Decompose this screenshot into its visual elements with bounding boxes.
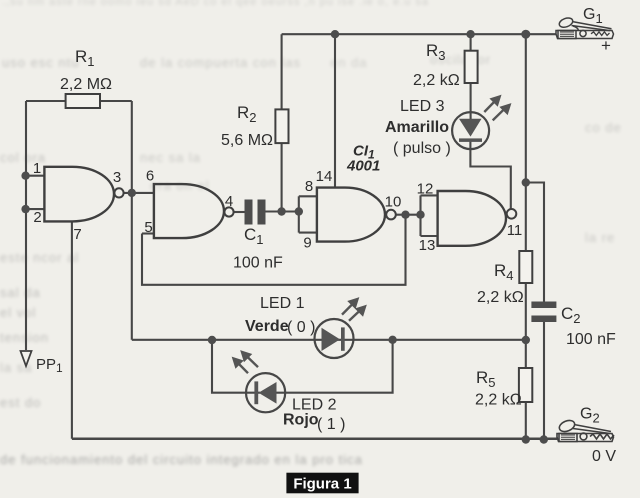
svg-text:R3: R3	[426, 41, 446, 63]
wire R3 top lead	[470, 34, 472, 51]
svg-text:10: 10	[385, 194, 402, 211]
wire LED2 left bracket	[212, 340, 260, 393]
wire pin 7 down	[71, 221, 73, 438]
svg-text:R1: R1	[75, 47, 95, 69]
svg-text:9: 9	[303, 235, 311, 252]
svg-text:14: 14	[316, 168, 333, 185]
wire R2 top lead	[281, 34, 283, 109]
wire R2 bottom lead	[281, 143, 283, 211]
wire LED3 cathode to pin 11	[470, 141, 510, 209]
svg-text:2,2 kΩ: 2,2 kΩ	[477, 289, 524, 306]
svg-text:1: 1	[33, 160, 41, 177]
wire left rail	[25, 101, 27, 350]
svg-text:PP1: PP1	[36, 356, 63, 375]
svg-text:5: 5	[144, 219, 152, 236]
wire gate1 input 2	[26, 208, 44, 210]
LED 3 symbol	[452, 97, 510, 150]
svg-text:12: 12	[417, 181, 434, 198]
wire pin 5 stub	[142, 232, 154, 234]
svg-text:G1: G1	[583, 6, 603, 26]
wire pin 9 stub	[299, 232, 317, 234]
wire C2 branch	[526, 183, 544, 302]
LED 1 symbol	[315, 299, 366, 358]
svg-text:6: 6	[146, 168, 154, 185]
wire gate1 input 1	[26, 175, 44, 177]
NOR gate CI1d	[438, 191, 517, 246]
alligator clip G2	[557, 418, 614, 441]
wire ground rail	[72, 438, 557, 441]
svg-text:C2: C2	[561, 304, 581, 326]
capacitor C2	[531, 302, 556, 323]
svg-text:LED 1: LED 1	[260, 295, 305, 312]
NOR gate CI1c	[317, 188, 396, 242]
svg-text:2,2 MΩ: 2,2 MΩ	[60, 76, 112, 93]
wire pin 12 stub	[421, 194, 438, 196]
wire right rail lower	[525, 283, 527, 368]
svg-text:2,2 kΩ: 2,2 kΩ	[413, 72, 460, 89]
svg-text:100 nF: 100 nF	[233, 255, 283, 272]
wire top supply rail	[282, 33, 556, 35]
svg-text:5,6 MΩ: 5,6 MΩ	[221, 132, 273, 149]
wire C2 bottom lead	[543, 322, 545, 440]
LED 2 symbol	[234, 352, 286, 412]
svg-text:( 0 ): ( 0 )	[287, 319, 315, 336]
svg-text:Verde: Verde	[245, 318, 289, 335]
svg-text:4: 4	[225, 193, 233, 210]
svg-text:( 1 ): ( 1 )	[317, 416, 345, 433]
svg-text:4001: 4001	[346, 158, 380, 175]
resistor R5	[519, 368, 532, 402]
svg-text:LED 3: LED 3	[400, 98, 445, 115]
svg-text:Figura 1: Figura 1	[293, 476, 351, 493]
wire R3 to LED3	[470, 83, 472, 119]
svg-text:0 V: 0 V	[592, 448, 616, 465]
wire pin 14 to supply	[334, 34, 336, 187]
wire LED indicator line	[132, 339, 526, 341]
NOR gate CI1a	[44, 167, 123, 222]
wire pins 12-13 tie bracket	[419, 195, 421, 236]
resistor R4	[519, 251, 532, 283]
wire R1 left lead	[26, 100, 66, 102]
wire pin 13 stub	[421, 235, 438, 237]
wire R1 right lead	[100, 100, 132, 102]
svg-text:( pulso ): ( pulso )	[393, 140, 451, 157]
wire right rail upper	[525, 34, 527, 251]
NOR gate CI1b	[154, 184, 234, 238]
svg-text:R2: R2	[237, 103, 257, 125]
svg-text:Amarillo: Amarillo	[385, 119, 449, 136]
svg-text:R4: R4	[494, 261, 514, 283]
svg-text:+: +	[601, 36, 611, 55]
probe PP1 arrow	[21, 351, 32, 366]
resistor R2	[275, 109, 288, 143]
wire gate3 out to gate4	[396, 214, 421, 216]
wire gate2 out to C1	[234, 211, 245, 213]
svg-text:C1: C1	[244, 225, 264, 247]
svg-text:Rojo: Rojo	[283, 412, 319, 429]
Figura 1 caption box	[286, 473, 358, 494]
wire feedback pin5 to pin10 node	[142, 215, 406, 285]
faint bleed-through paper texture	[2, 0, 640, 8]
svg-text:11: 11	[507, 222, 523, 239]
wire gate1 output vertical to LED line	[131, 101, 133, 340]
capacitor C1	[245, 200, 266, 225]
svg-text:R5: R5	[476, 368, 496, 390]
svg-text:3: 3	[113, 169, 121, 186]
alligator clip G1	[556, 16, 614, 38]
wire LED2 right return	[275, 340, 393, 393]
svg-text:100 nF: 100 nF	[566, 331, 616, 348]
resistor R1	[66, 94, 100, 108]
svg-text:2,2 kΩ: 2,2 kΩ	[475, 392, 522, 409]
svg-text:8: 8	[305, 178, 313, 195]
wire R5 to ground rail	[525, 402, 527, 440]
svg-text:2: 2	[33, 209, 41, 226]
wire pins 8-9 tie bracket	[298, 196, 300, 232]
svg-text:G2: G2	[580, 406, 600, 426]
svg-text:13: 13	[419, 237, 436, 254]
junction node dots	[21, 30, 548, 444]
wire gate1 out to gate2 in6	[124, 192, 154, 194]
resistor R3	[465, 51, 478, 83]
svg-text:7: 7	[73, 226, 81, 243]
wire C1 to node	[266, 210, 299, 212]
wire pin 8 stub	[299, 195, 317, 197]
